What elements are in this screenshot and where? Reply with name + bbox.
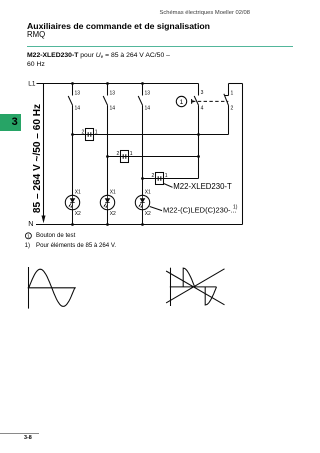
- contact S1 NO 13-14 branch 1: [68, 84, 80, 196]
- LED indicator lamp H1 (X1/X2): [65, 190, 81, 225]
- svg-text:85 – 264 V ~/50 – 60 Hz: 85 – 264 V ~/50 – 60 Hz: [32, 104, 43, 213]
- figure chopped wave axis horizontal: [170, 286, 217, 288]
- leader line to label M22-XLED230-T: [164, 184, 173, 188]
- svg-text:X2: X2: [110, 211, 116, 217]
- contact S5 test NC 1-2: [224, 84, 234, 135]
- footnote 2 text: [36, 242, 116, 249]
- svg-text:14: 14: [110, 105, 116, 111]
- svg-text:X2: X2: [75, 211, 81, 217]
- svg-text:X1: X1: [110, 190, 116, 196]
- LED indicator lamp H3 (X1/X2): [135, 190, 151, 225]
- svg-text:4: 4: [201, 106, 204, 112]
- figure cross-out diagonal 1: [166, 269, 224, 303]
- subtitle RMQ: [27, 30, 45, 39]
- svg-text:13: 13: [145, 91, 151, 97]
- figure chopped wave axis vertical: [170, 268, 172, 306]
- svg-text:3: 3: [201, 90, 204, 96]
- figure chopped wave pulse 1: [183, 268, 194, 287]
- voltage range arrowhead: [42, 216, 46, 224]
- chapter title: [27, 21, 210, 31]
- figure sine wave axis horizontal: [28, 287, 76, 289]
- svg-text:L1: L1: [28, 80, 36, 87]
- node junction dot N / branch 2: [106, 223, 109, 226]
- node junction dot test vertical / bus 2: [197, 155, 200, 158]
- svg-text:M22-XLED230-T: M22-XLED230-T: [173, 182, 232, 191]
- footnote marker circled 1: [25, 233, 31, 239]
- resistor element R1 (box pins 2-1): [82, 129, 98, 141]
- figure chopped wave pulse 2: [205, 287, 216, 305]
- voltage range arrow line: [43, 84, 45, 217]
- svg-text:1: 1: [165, 173, 168, 179]
- contact S3 NO 13-14 branch 3: [138, 84, 150, 196]
- wire bus 2 (pins 2-1 row 2): [108, 156, 199, 158]
- dashed actuator linkage: [192, 100, 228, 102]
- leader line to label M22-(C)LED(C)230: [150, 207, 162, 211]
- section heading line 2: [27, 61, 45, 68]
- svg-text:1: 1: [130, 151, 133, 157]
- wire N bottom rail: [36, 224, 243, 226]
- node junction dot branch 2 / bus 2: [106, 155, 109, 158]
- green chapter tab 3: [0, 114, 21, 132]
- svg-text:2: 2: [82, 129, 85, 135]
- svg-text:13: 13: [110, 91, 116, 97]
- svg-text:13: 13: [75, 91, 81, 97]
- figure sine wave axis vertical: [28, 267, 30, 309]
- svg-text:14: 14: [75, 105, 81, 111]
- page header running title: [0, 10, 250, 16]
- node junction dot L1 / branch 3: [141, 82, 144, 85]
- svg-text:X1: X1: [145, 190, 151, 196]
- svg-text:X2: X2: [145, 211, 151, 217]
- node junction dot N / branch 1: [71, 223, 74, 226]
- svg-text:1: 1: [27, 234, 30, 239]
- wire right return rail: [242, 84, 244, 225]
- svg-text:2: 2: [152, 173, 155, 179]
- LED indicator lamp H2 (X1/X2): [100, 190, 116, 225]
- test button actuator circled 1: [176, 96, 195, 106]
- svg-text:14: 14: [145, 105, 151, 111]
- section heading line 1: [27, 52, 170, 59]
- wire top link contact 1 to right rail: [229, 83, 243, 85]
- footer rule: [0, 432, 39, 435]
- contact S2 NO 13-14 branch 2: [103, 84, 115, 196]
- wire bus 1 (pins 2-1 row 1): [73, 134, 229, 136]
- svg-text:2: 2: [231, 105, 234, 111]
- resistor element R2 (box pins 2-1): [117, 151, 133, 163]
- figure cross-out diagonal 2: [166, 271, 224, 305]
- svg-text:X1: X1: [75, 190, 81, 196]
- footnote 1 text: [36, 232, 75, 239]
- footnote 2 marker: [25, 242, 30, 249]
- svg-text:N: N: [28, 219, 33, 228]
- svg-text:1: 1: [95, 129, 98, 135]
- svg-text:1): 1): [233, 205, 238, 211]
- svg-text:1: 1: [180, 99, 184, 106]
- svg-text:2: 2: [117, 151, 120, 157]
- node junction dot test vertical / bus 1: [197, 133, 200, 136]
- svg-text:M22-(C)LED(C)230-...: M22-(C)LED(C)230-...: [163, 205, 237, 214]
- node junction dot branch 3 / bus 3: [141, 177, 144, 180]
- resistor element R3 (box pins 2-1): [152, 173, 168, 185]
- contact S4 test NO 3-4: [194, 84, 203, 179]
- teal section rule: [27, 46, 293, 47]
- svg-text:1: 1: [231, 91, 234, 97]
- node junction dot branch 1 / bus 1: [71, 133, 74, 136]
- node junction dot L1 / branch 1: [71, 82, 74, 85]
- wire bus 3 (pins 2-1 row 3): [143, 178, 199, 180]
- node junction dot L1 / branch 2: [106, 82, 109, 85]
- figure sine wave curve: [29, 269, 75, 306]
- node junction dot N / branch 3: [141, 223, 144, 226]
- footer page number 3-8: [24, 435, 32, 441]
- wire L1 top rail: [37, 83, 199, 85]
